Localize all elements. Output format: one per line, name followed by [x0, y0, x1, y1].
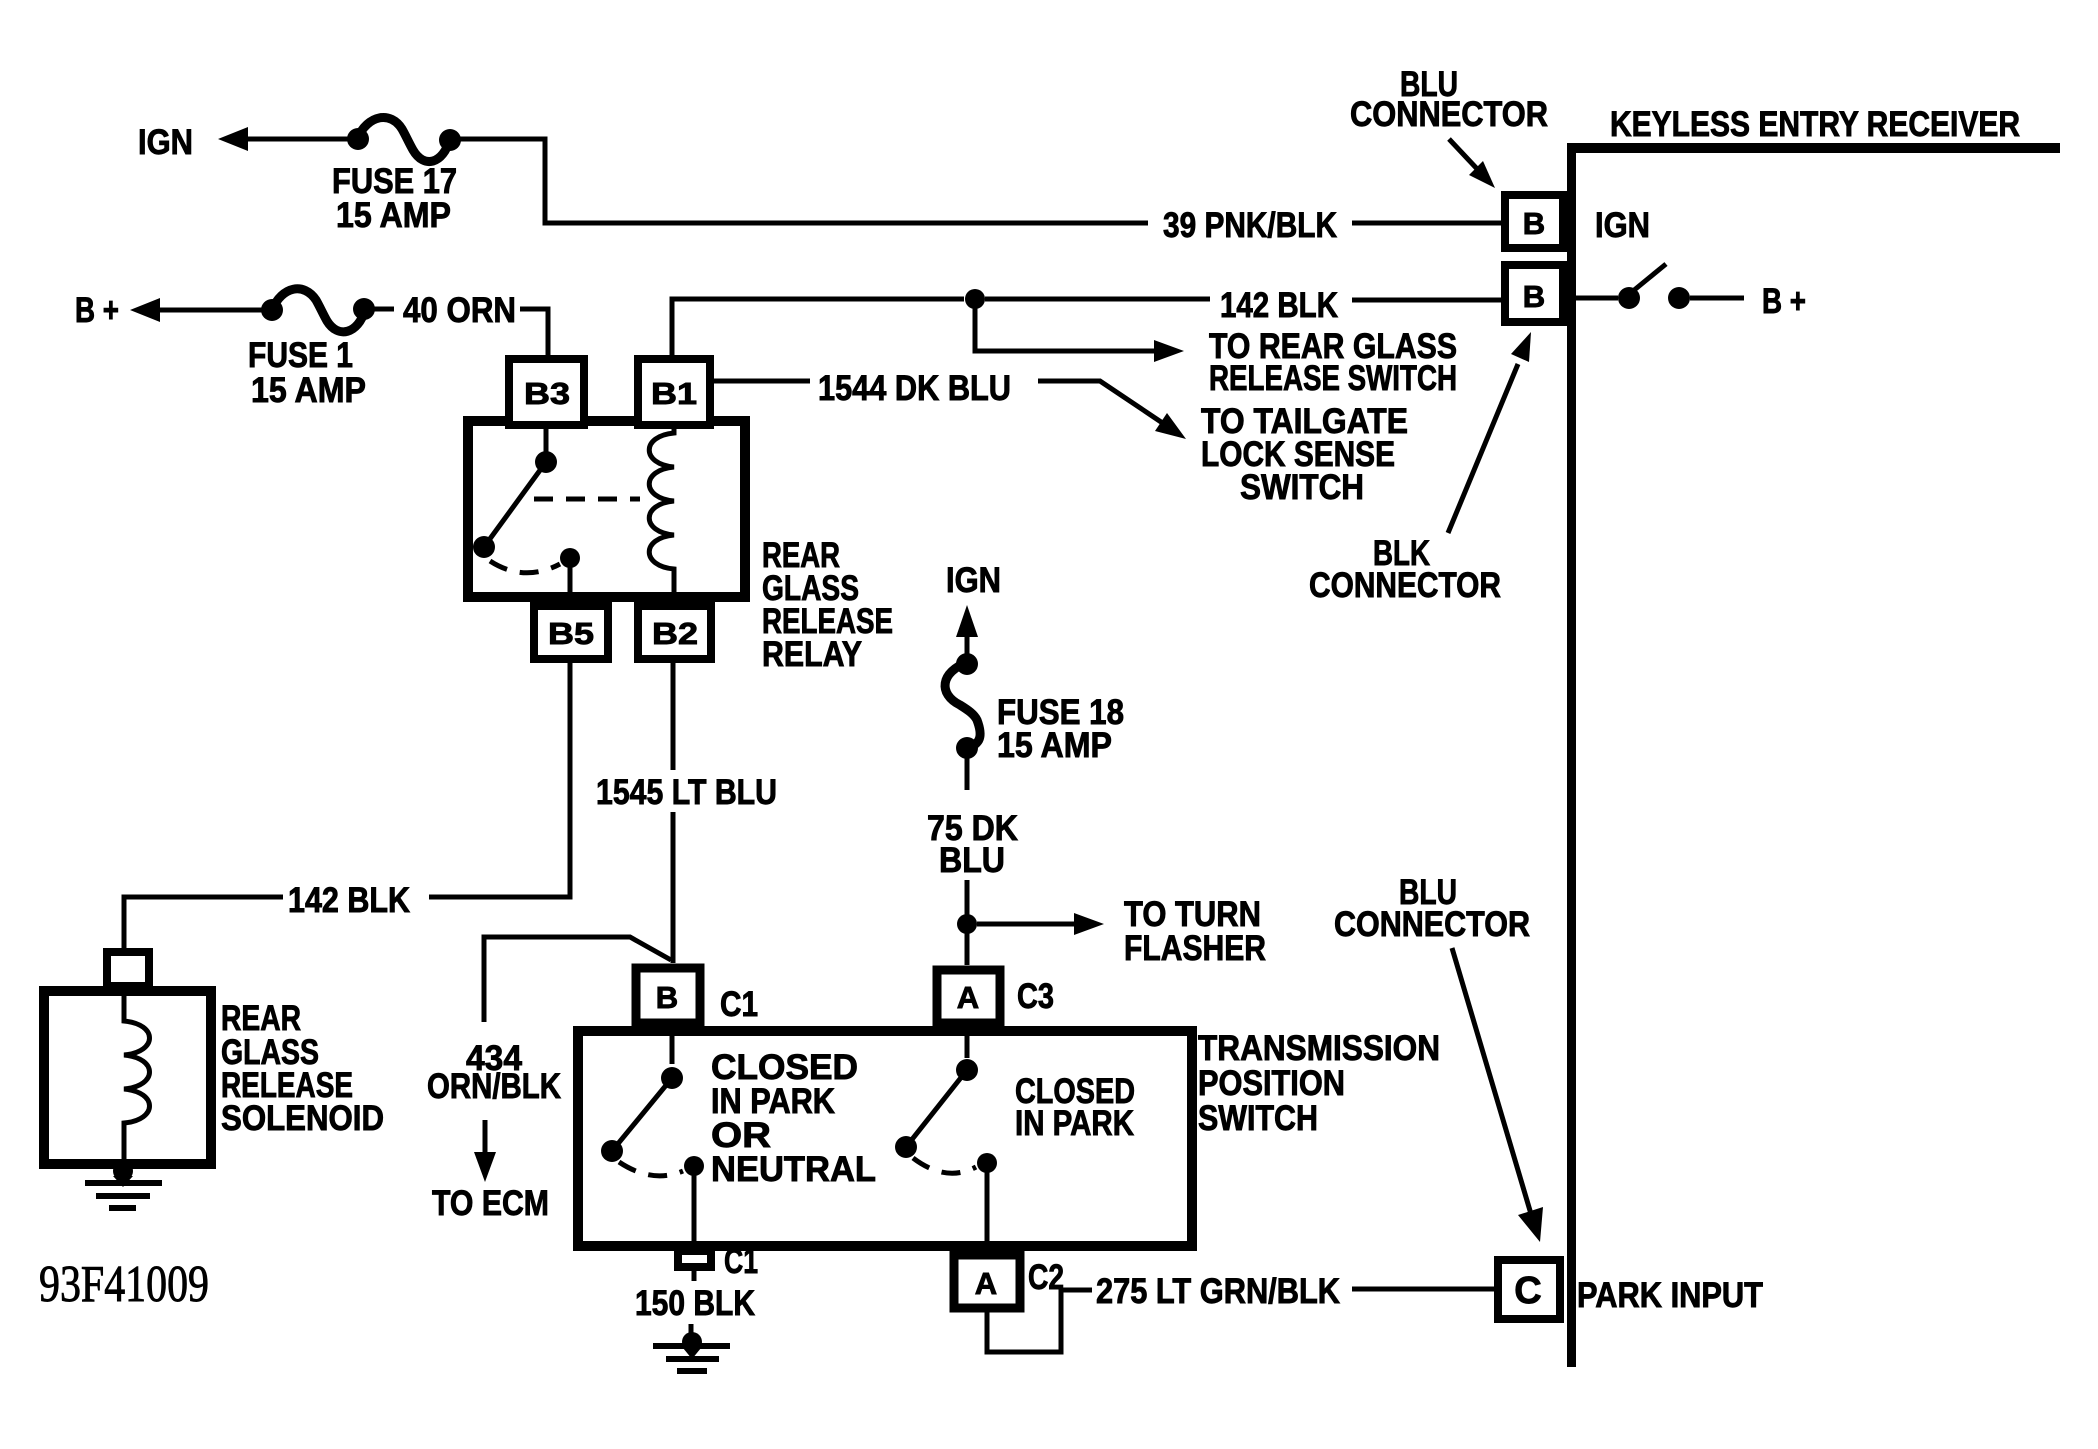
svg-text:B: B [656, 980, 678, 1015]
ground (150 BLK) [689, 1324, 694, 1336]
ground (solenoid) [113, 1161, 133, 1181]
relay coil [649, 421, 674, 597]
pin B (C1) [636, 968, 700, 1023]
wire 39 PNK/BLK to connector B [1352, 221, 1501, 226]
solenoid coil [124, 990, 150, 1164]
svg-text:93F41009: 93F41009 [39, 1256, 209, 1313]
wire IGN arrow to fuse 17 [218, 127, 248, 151]
svg-text:B: B [1523, 206, 1545, 241]
svg-text:IGN: IGN [1595, 206, 1650, 245]
junction to turn flasher [957, 914, 977, 934]
svg-text:RELAY: RELAY [762, 635, 862, 674]
transmission position switch box [578, 1031, 1192, 1246]
wire 40 ORN [372, 307, 394, 312]
svg-text:CONNECTOR: CONNECTOR [1309, 566, 1501, 605]
svg-text:1545 LT BLU: 1545 LT BLU [596, 773, 777, 812]
wire B2 down (1545 LT BLU) [671, 661, 676, 770]
svg-text:142 BLK: 142 BLK [288, 881, 410, 920]
svg-text:SOLENOID: SOLENOID [221, 1099, 384, 1138]
svg-text:40 ORN: 40 ORN [403, 291, 516, 330]
keyless entry receiver outline [1567, 143, 1576, 1367]
arrow BLU connector to pin B [1449, 139, 1480, 172]
fuse F18 [956, 653, 978, 675]
svg-text:15 AMP: 15 AMP [997, 726, 1112, 765]
svg-text:PARK INPUT: PARK INPUT [1577, 1276, 1763, 1315]
svg-text:150 BLK: 150 BLK [635, 1284, 755, 1323]
wire fuse 17 to 39 PNK/BLK [458, 139, 1148, 223]
pin A (C3) [937, 970, 1000, 1023]
svg-text:CONNECTOR: CONNECTOR [1334, 905, 1530, 944]
junction 142 BLK [965, 289, 985, 309]
arrow to ECM [483, 1120, 488, 1156]
wire B1 up to 142 BLK [672, 299, 964, 357]
svg-text:FLASHER: FLASHER [1124, 929, 1266, 968]
wire B5 down to 142 BLK (left) [429, 661, 570, 897]
svg-text:15 AMP: 15 AMP [336, 196, 451, 235]
relay K1: rear glass release relay box [468, 421, 745, 597]
svg-text:B1: B1 [651, 376, 697, 411]
svg-text:BLU: BLU [939, 841, 1005, 880]
pin C (park input) [1498, 1260, 1560, 1319]
wire 1544 DK BLU from B1 [714, 379, 810, 384]
svg-text:15 AMP: 15 AMP [251, 371, 366, 410]
svg-text:A: A [975, 1266, 997, 1301]
svg-text:C1: C1 [720, 985, 758, 1024]
svg-text:B: B [1523, 279, 1545, 314]
pin B5 [534, 606, 608, 659]
svg-text:TO ECM: TO ECM [432, 1184, 549, 1223]
switch (receiver B+ input) [1576, 296, 1618, 301]
svg-text:B5: B5 [548, 616, 594, 651]
fuse F17 [347, 128, 369, 150]
TPS left switch (closed in park or neutral) [670, 1027, 675, 1064]
svg-text:IGN: IGN [946, 561, 1001, 600]
svg-text:FUSE 1: FUSE 1 [248, 336, 353, 375]
solenoid L1: rear glass release solenoid [107, 952, 149, 986]
arrow BLU connector to pin C [1452, 948, 1531, 1214]
svg-text:A: A [957, 980, 979, 1015]
svg-text:KEYLESS ENTRY RECEIVER: KEYLESS ENTRY RECEIVER [1610, 105, 2020, 144]
wire IGN up arrow [956, 605, 978, 637]
wire 434 ORN/BLK from B C1 [484, 937, 671, 1022]
svg-text:TRANSMISSION: TRANSMISSION [1198, 1029, 1440, 1068]
svg-text:B +: B + [75, 291, 119, 330]
svg-text:IN PARK: IN PARK [1015, 1104, 1134, 1143]
svg-text:CONNECTOR: CONNECTOR [1350, 95, 1548, 134]
pin B3 [509, 359, 584, 425]
pin B2 [638, 606, 711, 659]
relay contact [560, 548, 580, 568]
pin B1 [638, 359, 710, 425]
svg-text:ORN/BLK: ORN/BLK [427, 1067, 561, 1106]
pin C1 (bottom) [678, 1251, 711, 1267]
svg-text:RELEASE SWITCH: RELEASE SWITCH [1209, 359, 1457, 398]
wire 275 LT GRN/BLK [987, 1290, 1092, 1352]
wire B+ arrow to fuse 1 [130, 298, 160, 322]
svg-text:B3: B3 [524, 376, 570, 411]
svg-text:POSITION: POSITION [1198, 1064, 1345, 1103]
svg-text:IGN: IGN [138, 123, 193, 162]
pin B (IGN, blu connector) [1505, 195, 1563, 248]
svg-text:B2: B2 [652, 616, 698, 651]
svg-text:SWITCH: SWITCH [1240, 468, 1364, 507]
svg-text:275 LT GRN/BLK: 275 LT GRN/BLK [1096, 1272, 1340, 1311]
wire 75 DK BLU down to A C3 [965, 880, 970, 965]
svg-text:NEUTRAL: NEUTRAL [711, 1150, 876, 1189]
relay dashed arc [490, 561, 560, 573]
svg-text:142 BLK: 142 BLK [1220, 286, 1338, 325]
svg-text:C1: C1 [724, 1242, 758, 1281]
fuse F1 [261, 299, 283, 321]
relay switch arm [544, 429, 549, 452]
wire branch to rear glass release switch [975, 299, 1158, 351]
svg-text:B +: B + [1762, 282, 1806, 321]
pin B (B+, blk connector) [1505, 265, 1563, 322]
relay dashed actuation line [534, 497, 640, 502]
arrow BLK connector to pin B [1448, 364, 1518, 533]
svg-text:39 PNK/BLK: 39 PNK/BLK [1163, 206, 1337, 245]
TPS right switch (closed in park) [965, 1027, 970, 1058]
svg-text:1544 DK BLU: 1544 DK BLU [818, 369, 1011, 408]
svg-text:C: C [1514, 1270, 1541, 1312]
svg-text:C3: C3 [1017, 977, 1054, 1016]
pin A (C2) [954, 1255, 1020, 1308]
svg-text:SWITCH: SWITCH [1198, 1099, 1318, 1138]
